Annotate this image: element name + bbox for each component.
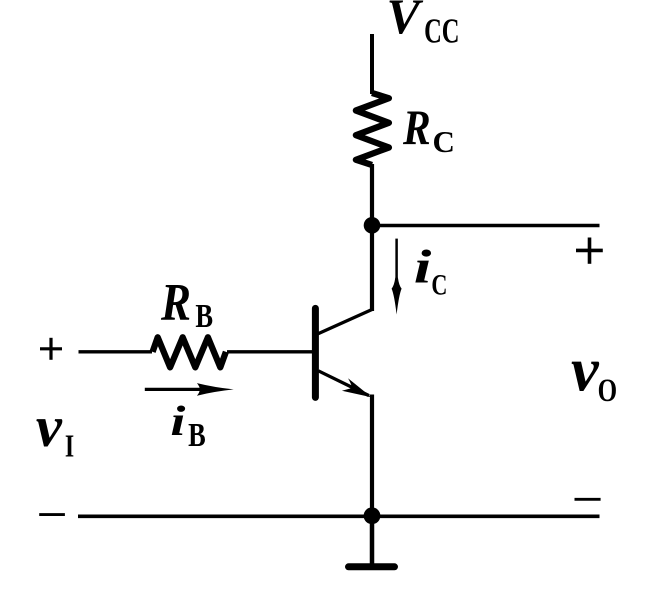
svg-text:v: v — [571, 335, 600, 404]
transistor Q1 collector lead — [318, 310, 373, 335]
svg-text:I: I — [65, 427, 74, 463]
svg-text:B: B — [188, 417, 206, 454]
resistor RB — [153, 337, 226, 367]
output minus sign — [575, 498, 601, 501]
wire collector node to output plus terminal — [372, 224, 600, 228]
svg-text:B: B — [195, 298, 213, 335]
label RC — [402, 99, 455, 159]
junction node emitter/ground — [364, 507, 381, 524]
wire RB to Q1 base — [227, 350, 313, 353]
label iC — [414, 241, 448, 302]
transistor Q1 emitter lead with arrow — [318, 371, 371, 398]
wire input terminal to RB — [79, 350, 153, 353]
input minus sign — [39, 513, 65, 516]
wire RC to collector node — [370, 164, 374, 311]
transistor Q1 base bar — [312, 308, 319, 397]
svg-text:i: i — [414, 241, 432, 294]
svg-text:i: i — [170, 397, 186, 444]
input plus sign — [40, 338, 62, 360]
label iB — [170, 397, 205, 454]
ground stem — [370, 516, 375, 564]
wire Q1 emitter to ground node — [370, 395, 374, 518]
label vI — [36, 394, 74, 463]
svg-text:C: C — [433, 124, 455, 159]
svg-text:v: v — [36, 394, 63, 459]
label vO — [571, 335, 617, 409]
junction node collector/output — [364, 217, 381, 234]
svg-text:R: R — [402, 99, 431, 155]
svg-text:O: O — [598, 373, 618, 409]
wire bottom rail — [78, 514, 600, 518]
ground symbol bar — [349, 563, 395, 570]
current arrow iB — [145, 383, 234, 396]
label RB — [160, 274, 213, 335]
wire VCC to RC — [370, 34, 374, 94]
net VCC label — [387, 0, 460, 51]
svg-text:R: R — [160, 274, 191, 332]
current arrow iC — [392, 239, 402, 315]
svg-text:C: C — [431, 269, 447, 302]
output plus sign — [576, 238, 603, 264]
svg-text:CC: CC — [424, 12, 459, 51]
resistor RC — [356, 93, 389, 165]
svg-text:V: V — [387, 0, 424, 44]
